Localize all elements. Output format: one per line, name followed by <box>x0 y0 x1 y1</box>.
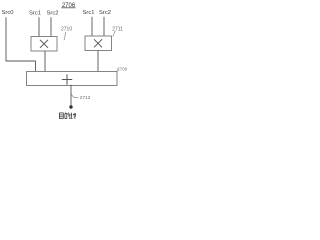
multiplier M1 box (left) <box>31 37 57 52</box>
leader line to numeral 2712 <box>71 94 78 98</box>
adder plus symbol <box>62 74 72 85</box>
wire Src1 into left multiplier <box>38 17 40 36</box>
svg-text:Src1: Src1 <box>83 10 95 16</box>
svg-text:2708: 2708 <box>117 67 127 72</box>
glyph di (earth) <box>70 113 75 119</box>
glyph mu (eye) <box>59 113 63 119</box>
svg-text:Src2: Src2 <box>47 11 59 17</box>
svg-text:Src1: Src1 <box>29 11 41 17</box>
wire Src2 into right multiplier <box>103 17 105 36</box>
svg-text:2710: 2710 <box>61 26 72 32</box>
svg-text:Src0: Src0 <box>2 10 14 16</box>
svg-text:Src2: Src2 <box>99 10 111 16</box>
leader line to numeral 2708 <box>117 69 118 72</box>
multiplier M1 x symbol <box>40 40 48 48</box>
wire M2 output into adder <box>97 51 99 72</box>
svg-text:2711: 2711 <box>112 26 123 32</box>
multiplier M2 box (right) <box>85 36 112 51</box>
glyph de (target) <box>65 113 70 119</box>
adder A1 box <box>27 72 118 86</box>
multiplier M2 x symbol <box>94 39 102 47</box>
arrowhead at destination <box>69 105 72 108</box>
destination label 目的地 (drawn glyphs) <box>59 113 75 119</box>
figure reference numeral 2706 (underlined, top center) <box>62 3 76 9</box>
wire Src0 vertical segment <box>5 17 7 61</box>
wire M1 output into adder <box>44 51 46 72</box>
wire Src0 horizontal segment <box>6 60 36 62</box>
svg-text:2712: 2712 <box>80 95 91 101</box>
leader line to numeral 2710 <box>64 32 66 41</box>
wire Src0 drop into adder <box>35 61 37 72</box>
wire Src2 into left multiplier <box>50 17 52 36</box>
background <box>0 0 127 120</box>
leader line to numeral 2711 <box>113 31 116 36</box>
wire Src1 into right multiplier <box>91 17 93 36</box>
wire adder output <box>70 85 72 106</box>
